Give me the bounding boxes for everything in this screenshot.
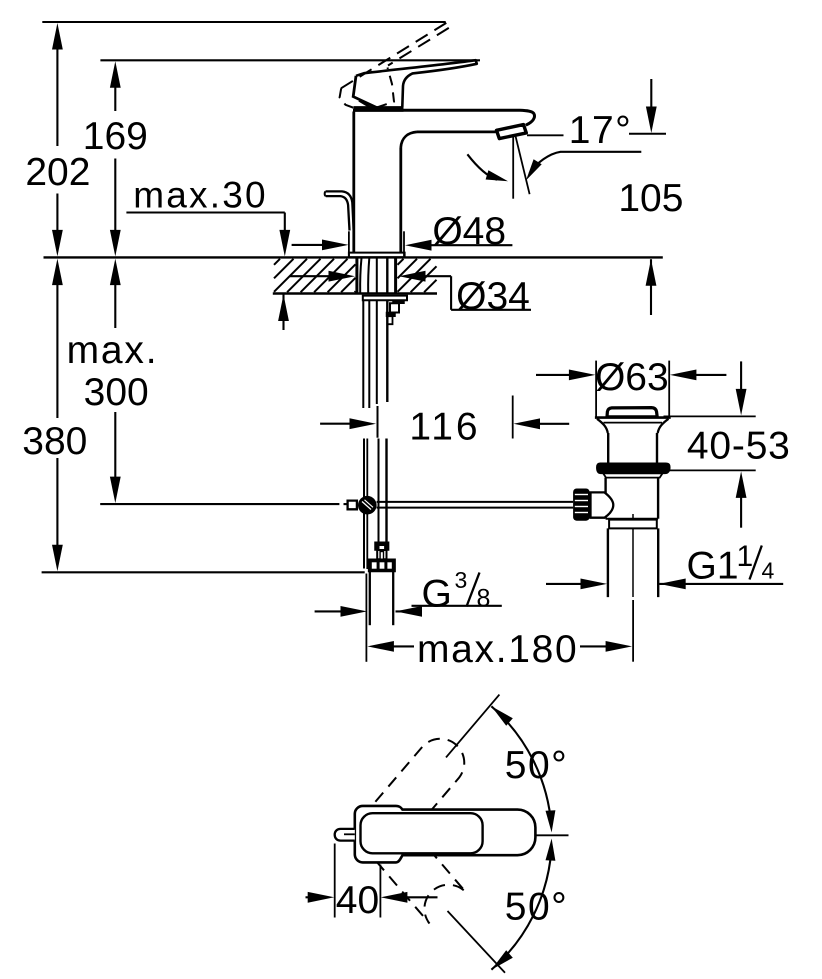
handle top view outline [355,806,536,863]
horizontal reference at handle tip [536,834,569,836]
supply hoses upper section [362,300,364,408]
dashed handle raised position [341,23,446,88]
dimension diameter 48 arrows [348,231,350,257]
17 degree stream lines [512,136,514,199]
hose segment at 116 arrow [377,406,379,438]
380 reference line at hose end [42,571,365,573]
dimension 169 vertical line with arrows [110,61,121,88]
svg-text:1: 1 [737,540,754,573]
dimension 116 arrows [320,423,356,425]
G3/8 threaded pipe [369,572,371,626]
dashed handle rotated down 50 [376,830,466,924]
rubber seal gasket [597,463,670,473]
svg-text:Ø34: Ø34 [456,275,530,318]
svg-text:105: 105 [618,177,683,220]
G3/8 hose connector [375,542,389,550]
dimension 202 vertical line with arrows [52,23,63,50]
svg-text:40-53: 40-53 [687,425,791,468]
faucet body and spout outline [352,112,355,253]
svg-text:4: 4 [762,558,775,584]
dimension max.30 leader and arrows [126,211,284,213]
dimension diameter 63 arrows [595,361,597,417]
dimension G1 1/4 arrows [546,583,591,585]
dimension 40-53 arrows [664,415,756,417]
counter hatching [274,259,280,265]
svg-text:40: 40 [336,879,379,922]
svg-text:17°: 17° [569,109,632,152]
knurled adjusting knob [591,492,614,517]
17 degree angle arc with arrows [467,154,497,180]
dashed handle rotated up 50 [367,739,464,843]
supply hoses lower section [363,439,365,569]
waste tail pipe G1 1/4 [607,528,609,597]
counter top and bottom lines [44,256,663,258]
svg-text:G1: G1 [687,544,739,587]
pop-up waste flange [595,416,671,419]
faucet base plate [349,253,405,258]
svg-text:50°: 50° [505,744,568,787]
dimension ref line top (202 datum) [42,21,445,23]
max300 reference line at rod level [100,503,339,505]
svg-text:3: 3 [455,567,468,593]
upper 50 degree line [446,695,499,758]
svg-text:116: 116 [409,405,480,448]
svg-text:169: 169 [83,115,148,158]
svg-text:300: 300 [84,371,149,414]
pop-up waste cap [607,408,657,417]
faucet shank through counter [355,258,358,294]
pop-up lift rod knob [326,191,354,229]
waste valve body [604,478,606,519]
mounting locknut under counter [363,296,407,301]
svg-text:8: 8 [477,585,491,613]
dimension max.180 arrows [365,574,367,662]
svg-text:max.: max. [67,329,159,372]
svg-text:G: G [422,573,452,616]
svg-text:202: 202 [25,151,90,194]
svg-text:Ø63: Ø63 [595,356,669,399]
dimension G3/8 arrows [315,610,349,612]
dimension 380 vertical with arrows [52,259,63,286]
faucet handle (side view) [356,60,477,107]
svg-text:Ø48: Ø48 [432,210,506,253]
svg-text:max.30: max.30 [133,174,268,215]
dimension 40 arrows [334,844,336,918]
svg-text:380: 380 [22,420,87,463]
aerator at spout tip [497,125,527,139]
upper 50 degree arc [491,706,551,826]
lower 50 degree arc [491,850,551,970]
dimension ref line (169 datum) [100,59,480,61]
handle nub (top view) [335,829,355,841]
svg-text:50°: 50° [505,886,568,929]
pop-up rod ball joint and horizontal rod [348,501,357,510]
dimension max300 vertical with arrows [110,259,121,286]
waste collar ring [609,520,657,529]
pop-up waste upper body [607,433,609,463]
lower 50 degree line [448,911,506,973]
svg-text:max.180: max.180 [417,628,578,671]
dimension diameter 34 leader [290,275,337,277]
dimension 105 arrows and tick [629,133,666,135]
